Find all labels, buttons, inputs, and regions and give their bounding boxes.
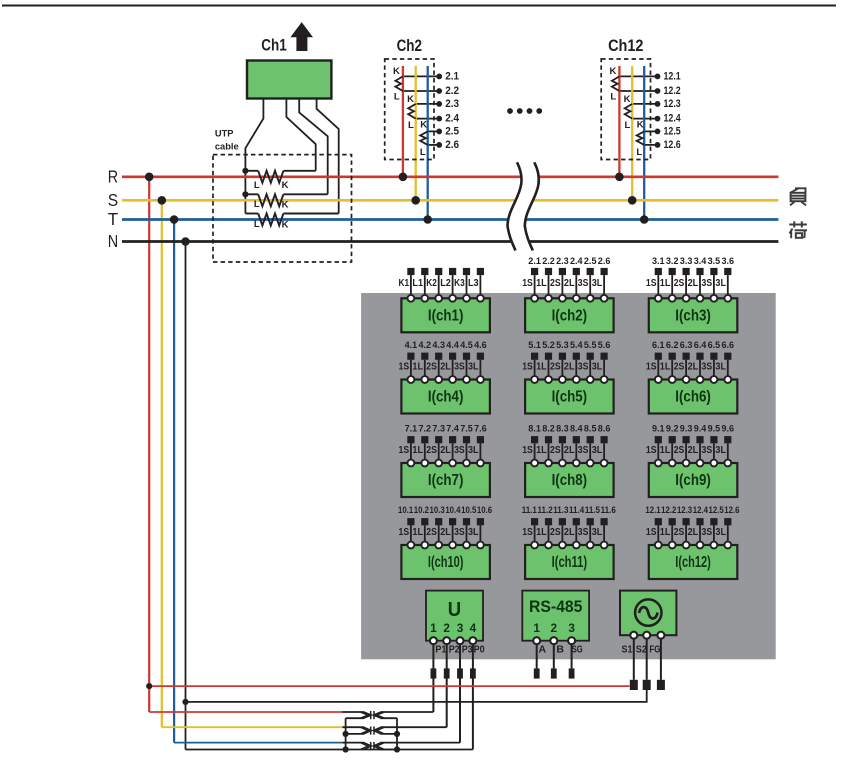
svg-text:I(ch9): I(ch9) [675, 472, 711, 489]
svg-text:1L: 1L [660, 362, 671, 373]
CT zigzag 12 phase S [625, 104, 633, 119]
svg-text:8.4: 8.4 [570, 422, 583, 433]
svg-text:L: L [636, 147, 642, 158]
terminal square pin 6 of I(ch5) [601, 353, 608, 360]
svg-text:11.4: 11.4 [569, 505, 585, 515]
current input block U7 I(ch7) [399, 422, 490, 497]
current input block U5 I(ch5) [522, 339, 613, 414]
svg-text:2.4: 2.4 [570, 255, 583, 266]
wire pin 1 to I(ch3) [657, 275, 659, 298]
wire pin 2 to I(ch6) [671, 360, 673, 380]
wire pin 4 to I(ch10) [452, 525, 454, 545]
pin circle 5 of I(ch6) [711, 376, 718, 383]
wire pin 1 to I(ch8) [534, 443, 536, 463]
wire fuse2 right to P2 [381, 726, 447, 728]
svg-text:3L: 3L [468, 362, 479, 373]
terminal dot 12.3 [655, 101, 661, 107]
pin circle 6 of I(ch9) [724, 460, 731, 467]
pin circle 2 of I(ch3) [669, 295, 676, 302]
svg-text:I(ch6): I(ch6) [675, 389, 711, 406]
pin circle 6 of I(ch4) [477, 376, 484, 383]
pin circle 1 of I(ch10) [408, 542, 415, 549]
wire fuse1 lower-left lead [346, 717, 364, 719]
terminal dot 2.4 [436, 116, 442, 122]
U pin circle 2 [443, 637, 450, 644]
pin circle 4 of I(ch9) [697, 460, 704, 467]
wire CT K lead at y170.8 [283, 170, 315, 172]
pin circle 4 of I(ch3) [697, 295, 704, 302]
power supply block (AC source symbol) [620, 591, 676, 639]
svg-text:2.1: 2.1 [528, 255, 541, 266]
CT primary line (T phase) [427, 66, 429, 220]
pin circle 2 of I(ch10) [421, 542, 428, 549]
svg-text:2S: 2S [426, 362, 437, 373]
junction node at (397,749.5) [394, 746, 400, 752]
terminal square pin 2 of I(ch11) [545, 518, 552, 525]
bus break curve right [525, 162, 539, 250]
wire Ch1 lead 3 (K2) [299, 99, 328, 195]
svg-text:3S: 3S [578, 362, 589, 373]
wire pin 1 to I(ch5) [534, 360, 536, 380]
terminal square S1 [630, 680, 638, 690]
svg-text:5.2: 5.2 [542, 339, 555, 350]
svg-text:2L: 2L [688, 362, 699, 373]
terminal square pin 4 of I(ch11) [573, 518, 580, 525]
terminal square pin 3 of I(ch5) [559, 353, 566, 360]
svg-text:K: K [624, 94, 631, 105]
wire Ch2 terminal 2.3 [416, 103, 440, 105]
svg-text:12.3: 12.3 [664, 98, 681, 110]
svg-text:1S: 1S [522, 527, 533, 538]
terminal square pin 5 of I(ch8) [587, 436, 594, 443]
wire pin 4 to I(ch9) [699, 443, 701, 463]
svg-text:2L: 2L [688, 278, 699, 289]
svg-text:11.5: 11.5 [585, 505, 600, 515]
svg-text:3S: 3S [578, 445, 589, 456]
svg-text:2L: 2L [688, 445, 699, 456]
svg-text:2S: 2S [550, 362, 561, 373]
svg-text:7.3: 7.3 [432, 422, 445, 433]
terminal dot 2.3 [436, 101, 442, 107]
svg-text:9.3: 9.3 [680, 422, 693, 433]
svg-text:2S: 2S [550, 527, 561, 538]
pin circle 1 of I(ch7) [408, 460, 415, 467]
svg-text:3S: 3S [454, 527, 465, 538]
svg-text:A: A [539, 643, 547, 655]
dashed UTP cable box [213, 155, 352, 262]
CT zigzag 2 phase T [420, 131, 428, 145]
terminal square pin 4 of I(ch12) [696, 518, 703, 525]
wire R to fuse1 [149, 711, 342, 713]
R phase drop to S1/fuse1 [148, 177, 150, 712]
wire Ch2 terminal 2.6 [428, 144, 440, 146]
pin circle 4 of I(ch7) [449, 460, 456, 467]
svg-text:6.6: 6.6 [722, 339, 735, 350]
wire Ch2 terminal 2.2 [403, 90, 439, 92]
pin circle 6 of I(ch12) [724, 542, 731, 549]
pin circle 6 of I(ch3) [724, 295, 731, 302]
wire pin 1 to I(ch9) [657, 443, 659, 463]
terminal square pin 3 of I(ch8) [559, 436, 566, 443]
svg-text:1S: 1S [522, 362, 533, 373]
wire pin 4 to I(ch8) [575, 443, 577, 463]
svg-text:2.5: 2.5 [584, 255, 597, 266]
top horizontal rule [2, 4, 836, 6]
svg-text:5.6: 5.6 [598, 339, 611, 350]
svg-text:3S: 3S [454, 445, 465, 456]
wire pin 1 to I(ch1) [410, 275, 412, 298]
terminal square pin 6 of I(ch1) [477, 268, 484, 275]
svg-text:3S: 3S [702, 527, 713, 538]
svg-text:2S: 2S [426, 527, 437, 538]
svg-text:5.5: 5.5 [584, 339, 597, 350]
pin circle 3 of I(ch5) [559, 376, 566, 383]
svg-text:2S: 2S [674, 445, 685, 456]
terminal square pin 5 of I(ch7) [463, 436, 470, 443]
svg-text:L: L [624, 120, 630, 131]
terminal square pin 6 of I(ch12) [724, 518, 731, 525]
svg-text:4.2: 4.2 [419, 339, 432, 350]
wire Ch12 terminal 12.1 [619, 75, 657, 77]
current input block U2 I(ch2) [522, 255, 613, 332]
svg-text:N: N [108, 231, 118, 251]
pin circle 2 of I(ch4) [421, 376, 428, 383]
wire pin 4 to I(ch2) [575, 275, 577, 298]
pin circle 1 of I(ch4) [408, 376, 415, 383]
wire S2 to neutral [186, 690, 647, 702]
svg-text:3S: 3S [578, 278, 589, 289]
wire pin 2 to I(ch2) [548, 275, 550, 298]
pin circle 5 of I(ch8) [587, 460, 594, 467]
wire pin 1 to I(ch7) [410, 443, 412, 463]
svg-text:3L: 3L [592, 445, 603, 456]
wire pin 4 to I(ch1) [452, 275, 454, 298]
svg-text:1L: 1L [536, 445, 547, 456]
svg-text:I(ch1): I(ch1) [428, 307, 464, 324]
terminal square S2 [643, 680, 651, 690]
wire pin 2 to I(ch3) [671, 275, 673, 298]
svg-text:1S: 1S [646, 362, 657, 373]
pin circle 5 of I(ch2) [587, 295, 594, 302]
wire pin 3 to I(ch1) [438, 275, 440, 298]
svg-text:12.3: 12.3 [677, 505, 692, 515]
svg-text:3.2: 3.2 [666, 255, 679, 266]
wire into fuse3 upper-left [342, 742, 365, 744]
terminal square pin 1 of I(ch11) [531, 518, 538, 525]
svg-text:I(ch12): I(ch12) [675, 554, 711, 571]
svg-text:8.6: 8.6 [598, 422, 611, 433]
wire pin 3 to I(ch5) [561, 360, 563, 380]
wire fuse3 lower-right lead [381, 749, 398, 751]
wire pin 2 to I(ch12) [671, 525, 673, 545]
terminal square pin 5 of I(ch3) [710, 268, 717, 275]
svg-text:2L: 2L [440, 527, 451, 538]
svg-text:3.3: 3.3 [680, 255, 693, 266]
CT zigzag Ch1 phase S [258, 194, 283, 206]
pin circle 2 of I(ch8) [545, 460, 552, 467]
svg-text:12.6: 12.6 [664, 139, 681, 151]
wire U pin 2 (P2) vertical [446, 641, 448, 728]
svg-text:9.6: 9.6 [722, 422, 735, 433]
junction node at (632.2,200.3) [628, 196, 637, 205]
terminal square pin 2 of I(ch5) [545, 353, 552, 360]
terminal square pin 5 of I(ch9) [710, 436, 717, 443]
wire CT L lead at y194.3 [245, 193, 258, 195]
terminal square pin 3 of I(ch1) [435, 268, 442, 275]
pin circle 2 of I(ch12) [669, 542, 676, 549]
wire Ch12 terminal 12.2 [619, 90, 657, 92]
svg-text:2S: 2S [674, 527, 685, 538]
pin circle 5 of I(ch1) [463, 295, 470, 302]
svg-text:Ch1: Ch1 [261, 36, 286, 54]
wire pin 3 to I(ch4) [438, 360, 440, 380]
terminal square P3 [457, 668, 463, 678]
wire pin 5 to I(ch10) [466, 525, 468, 545]
wire into fuse1 upper-left [342, 711, 365, 713]
pin circle 3 of I(ch9) [683, 460, 690, 467]
CT zigzag 12 phase R [612, 76, 620, 91]
wire pin 6 to I(ch11) [603, 525, 605, 545]
terminal square pin 5 of I(ch2) [587, 268, 594, 275]
svg-text:6.1: 6.1 [652, 339, 665, 350]
svg-text:K: K [393, 66, 400, 77]
wire Ch12 terminal 12.4 [632, 118, 657, 120]
CT primary line (T phase) [643, 66, 645, 220]
pin circle 3 of I(ch4) [435, 376, 442, 383]
svg-text:I(ch7): I(ch7) [428, 472, 464, 489]
terminal square pin 3 of I(ch4) [435, 353, 442, 360]
terminal square pin 3 of I(ch12) [683, 518, 690, 525]
pin circle 4 of I(ch6) [697, 376, 704, 383]
svg-text:10.4: 10.4 [445, 505, 461, 515]
svg-text:1S: 1S [522, 445, 533, 456]
svg-text:2S: 2S [550, 445, 561, 456]
pin circle 6 of I(ch8) [601, 460, 608, 467]
pin circle 3 of I(ch2) [559, 295, 566, 302]
fuse right neutral link vertical [396, 718, 398, 749]
terminal square P1 [431, 668, 437, 678]
svg-text:4.3: 4.3 [432, 339, 445, 350]
ellipsis dot (channels omitted) [527, 108, 533, 114]
svg-text:5.1: 5.1 [528, 339, 541, 350]
terminal square pin 4 of I(ch4) [449, 353, 456, 360]
svg-text:12.6: 12.6 [724, 505, 739, 515]
pin circle 5 of I(ch4) [463, 376, 470, 383]
svg-text:2.3: 2.3 [556, 255, 569, 266]
wire fuse1 right to P1 [381, 711, 434, 713]
svg-text:7.5: 7.5 [460, 422, 473, 433]
svg-text:2S: 2S [550, 278, 561, 289]
svg-text:12.5: 12.5 [664, 125, 681, 137]
terminal square pin 4 of I(ch7) [449, 436, 456, 443]
wire pin 3 to I(ch10) [438, 525, 440, 545]
terminal square pin 1 of I(ch12) [655, 518, 662, 525]
svg-text:2S: 2S [426, 445, 437, 456]
label 負 (load, first char) [790, 188, 806, 205]
wire Ch2 terminal 2.1 [403, 75, 439, 77]
wire Ch1 lead 2 (K1) [286, 99, 315, 171]
ellipsis dot (channels omitted) [507, 108, 513, 114]
pin circle 2 of I(ch1) [421, 295, 428, 302]
wire pin 4 to I(ch7) [452, 443, 454, 463]
terminal square pin 5 of I(ch6) [710, 353, 717, 360]
junction node at (415.7,200.3) [411, 196, 420, 205]
svg-text:I(ch3): I(ch3) [675, 307, 711, 324]
terminal square pin 2 of I(ch12) [669, 518, 676, 525]
wire Ch2 terminal 2.5 [428, 130, 440, 132]
terminal square pin 3 of I(ch7) [435, 436, 442, 443]
wire pin 4 to I(ch12) [699, 525, 701, 545]
CT zigzag 2 phase R [395, 76, 403, 91]
terminal square pin 4 of I(ch6) [696, 353, 703, 360]
pin circle 2 of I(ch9) [669, 460, 676, 467]
wire pin 4 to I(ch5) [575, 360, 577, 380]
terminal square pin 4 of I(ch5) [573, 353, 580, 360]
wire Ch12 terminal 12.3 [632, 103, 657, 105]
wire pin 3 to I(ch11) [561, 525, 563, 545]
U pin circle 3 [457, 637, 464, 644]
wire pin 1 to I(ch2) [534, 275, 536, 298]
wire pin 6 to I(ch5) [603, 360, 605, 380]
wire U pin 3 (P3) vertical [459, 641, 461, 743]
svg-text:4.1: 4.1 [405, 339, 418, 350]
svg-text:2.4: 2.4 [445, 113, 459, 125]
wire RS-485 pin A [536, 641, 538, 669]
svg-text:SG: SG [572, 643, 583, 655]
wire CT L lead at y213.5 [245, 213, 258, 215]
terminal square pin 4 of I(ch2) [573, 268, 580, 275]
svg-text:11.3: 11.3 [553, 505, 568, 515]
CT zigzag 12 phase T [637, 131, 645, 145]
wire fuse2 lower-right lead [381, 733, 398, 735]
svg-text:5.3: 5.3 [556, 339, 569, 350]
svg-text:2L: 2L [688, 527, 699, 538]
current input block U4 I(ch4) [399, 339, 490, 414]
pin circle 4 of I(ch2) [573, 295, 580, 302]
terminal square pin 4 of I(ch9) [696, 436, 703, 443]
wire S to fuse2 [162, 726, 343, 728]
svg-text:2S: 2S [674, 278, 685, 289]
wire U pin 4 (P0) vertical [472, 641, 474, 750]
svg-text:12.1: 12.1 [664, 70, 681, 82]
svg-text:10.3: 10.3 [430, 505, 445, 515]
wire pin 6 to I(ch4) [479, 360, 481, 380]
svg-text:K: K [637, 119, 644, 130]
terminal square pin 2 of I(ch6) [669, 353, 676, 360]
terminal square pin 3 of I(ch3) [683, 268, 690, 275]
pin circle 3 of I(ch7) [435, 460, 442, 467]
current input block U6 I(ch6) [646, 339, 737, 414]
svg-text:3.4: 3.4 [694, 255, 707, 266]
fuse left neutral link vertical [345, 718, 347, 749]
CT primary line (R phase) [402, 66, 404, 177]
pin circle 2 of I(ch5) [545, 376, 552, 383]
svg-text:P3: P3 [462, 643, 473, 655]
svg-text:11.6: 11.6 [601, 505, 616, 515]
svg-text:8.2: 8.2 [542, 422, 555, 433]
current input block U3 I(ch3) [646, 255, 737, 332]
svg-text:9.1: 9.1 [652, 422, 665, 433]
junction node at (402.9,176.8) [399, 173, 408, 182]
bus break white band [508, 162, 539, 250]
svg-text:1L: 1L [536, 527, 547, 538]
svg-text:L2: L2 [440, 278, 451, 289]
svg-text:1: 1 [430, 621, 437, 635]
wire into fuse2 upper-left [342, 726, 365, 728]
svg-text:3L: 3L [592, 278, 603, 289]
pin circle 1 of I(ch8) [531, 460, 538, 467]
wire CT K lead at y194.3 [283, 193, 327, 195]
pin circle 3 of I(ch1) [435, 295, 442, 302]
pin circle 5 of I(ch10) [463, 542, 470, 549]
svg-text:3L: 3L [592, 362, 603, 373]
svg-text:K2: K2 [426, 278, 437, 289]
svg-text:1L: 1L [412, 445, 423, 456]
wire pin 5 to I(ch1) [466, 275, 468, 298]
svg-text:7.1: 7.1 [405, 422, 418, 433]
svg-text:RS-485: RS-485 [529, 597, 583, 616]
wire pin 3 to I(ch3) [685, 275, 687, 298]
bus break curve left [508, 162, 522, 250]
svg-text:1S: 1S [646, 445, 657, 456]
svg-text:K1: K1 [399, 278, 410, 289]
terminal square SG [569, 668, 575, 678]
svg-text:K3: K3 [454, 278, 465, 289]
terminal square pin 6 of I(ch7) [477, 436, 484, 443]
fuse F2 (S phase protective element) [360, 726, 384, 734]
wire supply pin S2 [646, 635, 648, 680]
pin circle 6 of I(ch6) [724, 376, 731, 383]
svg-text:9.2: 9.2 [666, 422, 679, 433]
terminal square pin 2 of I(ch10) [421, 518, 428, 525]
junction node at (185.5,241.5) [181, 237, 190, 246]
pin circle 4 of I(ch4) [449, 376, 456, 383]
RS-485 pin circle 2 [550, 637, 557, 644]
wire pin 2 to I(ch7) [424, 443, 426, 463]
svg-text:3.1: 3.1 [652, 255, 665, 266]
svg-text:1S: 1S [646, 527, 657, 538]
svg-text:T: T [108, 209, 119, 229]
pin circle 4 of I(ch5) [573, 376, 580, 383]
svg-text:2.2: 2.2 [445, 85, 459, 97]
pin circle 5 of I(ch3) [711, 295, 718, 302]
svg-text:UTP: UTP [215, 129, 234, 139]
terminal dot 12.4 [655, 116, 661, 122]
svg-text:3L: 3L [468, 445, 479, 456]
wire supply pin FG [660, 635, 662, 680]
terminal square pin 2 of I(ch2) [545, 268, 552, 275]
pin circle 5 of I(ch12) [711, 542, 718, 549]
svg-text:2L: 2L [564, 278, 575, 289]
junction node at (619.4,176.8) [615, 173, 624, 182]
wire T to fuse3 [174, 742, 342, 744]
svg-text:Ch2: Ch2 [397, 37, 422, 55]
wire pin 1 to I(ch10) [410, 525, 412, 545]
wire pin 2 to I(ch1) [424, 275, 426, 298]
svg-text:L1: L1 [412, 278, 423, 289]
wire pin 3 to I(ch9) [685, 443, 687, 463]
svg-text:3.6: 3.6 [722, 255, 735, 266]
wire R to S1 terminal [149, 685, 629, 687]
supply pin circle 1 [630, 632, 637, 639]
terminal square pin 5 of I(ch1) [463, 268, 470, 275]
svg-text:7.2: 7.2 [419, 422, 432, 433]
terminal square pin 3 of I(ch6) [683, 353, 690, 360]
terminal square pin 3 of I(ch10) [435, 518, 442, 525]
svg-text:1S: 1S [399, 445, 410, 456]
wire pin 3 to I(ch2) [561, 275, 563, 298]
svg-text:12.1: 12.1 [645, 505, 660, 515]
